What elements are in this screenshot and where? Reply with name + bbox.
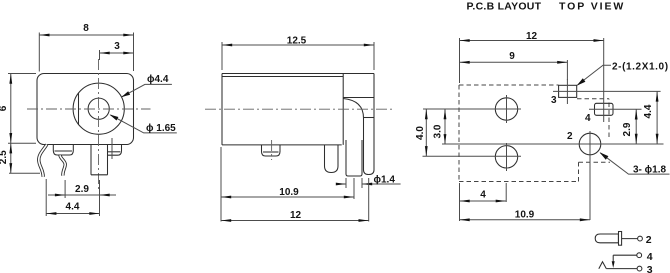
svg-text:4: 4 <box>647 251 653 263</box>
svg-text:ϕ1.4: ϕ1.4 <box>374 175 396 186</box>
svg-text:4: 4 <box>585 113 591 124</box>
svg-text:2.9: 2.9 <box>622 122 633 136</box>
svg-text:2.9: 2.9 <box>75 184 89 195</box>
svg-text:10.9: 10.9 <box>279 187 299 198</box>
svg-text:TOP VIEW: TOP VIEW <box>559 1 625 13</box>
svg-text:ϕ 1.65: ϕ 1.65 <box>146 123 176 134</box>
svg-text:4.4: 4.4 <box>643 104 654 118</box>
svg-text:ϕ4.4: ϕ4.4 <box>147 74 169 85</box>
svg-text:2: 2 <box>567 131 573 142</box>
svg-text:3: 3 <box>647 264 653 273</box>
svg-text:3.0: 3.0 <box>433 124 444 138</box>
svg-text:2-(1.2X1.0): 2-(1.2X1.0) <box>612 62 669 73</box>
svg-text:2: 2 <box>646 234 652 246</box>
svg-text:12: 12 <box>290 210 302 221</box>
svg-text:12: 12 <box>526 31 538 42</box>
svg-text:3: 3 <box>114 41 120 52</box>
svg-text:4.0: 4.0 <box>415 126 426 140</box>
svg-text:6: 6 <box>0 105 9 111</box>
svg-text:P.C.B LAYOUT: P.C.B LAYOUT <box>467 1 542 13</box>
svg-text:9: 9 <box>509 51 515 62</box>
svg-text:10.9: 10.9 <box>515 209 535 220</box>
svg-text:12.5: 12.5 <box>287 36 307 47</box>
svg-text:8: 8 <box>83 23 89 34</box>
svg-text:3: 3 <box>551 95 557 106</box>
svg-text:4.4: 4.4 <box>66 202 80 213</box>
svg-text:2.5: 2.5 <box>0 150 9 164</box>
svg-text:4: 4 <box>480 190 486 201</box>
